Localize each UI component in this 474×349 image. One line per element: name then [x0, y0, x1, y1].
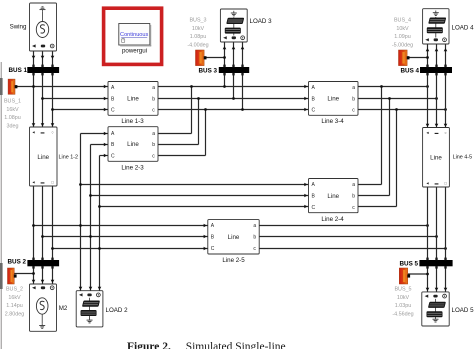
wire Line 1-2 bottom vertical A	[33, 186, 35, 260]
svg-text:Line 1-3: Line 1-3	[121, 118, 144, 125]
svg-text:BUS_4: BUS_4	[394, 18, 411, 24]
svg-text:Line: Line	[127, 141, 139, 148]
wire Line 2-3 input B from BUS2 net	[91, 143, 109, 147]
label Line 1-2	[59, 155, 78, 161]
wire BUS2 phase A horizontal to Line 2-5	[34, 224, 208, 228]
text BUS_4 readings	[392, 18, 413, 49]
wire LOAD4 stub A	[426, 44, 430, 67]
wire BUS3 drop B	[233, 73, 235, 99]
svg-text:◄: ◄	[426, 131, 430, 135]
svg-text:LOAD 3: LOAD 3	[250, 18, 273, 25]
svg-text:1.08pu: 1.08pu	[4, 115, 21, 121]
svg-text:◄: ◄	[426, 182, 430, 186]
junction Line 2-4 riser b	[388, 97, 391, 100]
line block Line 1-3	[108, 82, 158, 116]
junction Line 2-4 branch B	[89, 194, 92, 197]
wire BUS1 phase B horizontal to Line 1-3 input B	[43, 98, 109, 100]
wire Line 2-5 output b to BUS5	[259, 236, 436, 238]
svg-text:a: a	[352, 85, 355, 91]
label powergui	[122, 48, 147, 55]
svg-text:BUS 1: BUS 1	[9, 67, 28, 74]
label BUS 3	[199, 68, 218, 75]
wire BUS2 to machine2 stub A	[32, 266, 36, 284]
label Line 3-4	[321, 118, 344, 125]
junction BUS5 riser b	[435, 235, 438, 238]
junction BUS2 A	[32, 224, 35, 227]
svg-text:C: C	[211, 246, 215, 252]
svg-text:○: ○	[51, 130, 53, 134]
wire BUS_5 display tap	[408, 273, 428, 275]
wire BUS1 phase A horizontal to Line 1-3 input A	[15, 86, 108, 88]
wire Line 2-3 output c riser	[158, 110, 206, 156]
wire Line 2-3 input A from BUS2 net	[81, 132, 109, 136]
junction riser c on phase C	[204, 108, 207, 111]
svg-text:a: a	[152, 131, 155, 137]
svg-text:Line: Line	[430, 155, 442, 162]
wire BUS2 net vertical x100 (to LOAD 2)	[99, 156, 101, 291]
svg-text:C: C	[111, 107, 115, 113]
red highlight box	[104, 8, 162, 64]
junction Line 2-4 branch A	[79, 183, 82, 186]
wire Line 4-5 to BUS5 vertical A	[427, 187, 429, 260]
label LOAD 3	[250, 18, 273, 25]
arrow Line 1-2 input B	[41, 123, 45, 126]
line block Line 2-3	[108, 127, 158, 162]
junction riser b on phase B	[197, 97, 200, 100]
text BUS_2 readings	[5, 287, 25, 318]
svg-text:1.08pu: 1.08pu	[190, 34, 207, 40]
junction BUS1 B	[41, 97, 44, 100]
svg-text:BUS 2: BUS 2	[8, 259, 27, 266]
svg-text:1.03pu: 1.03pu	[395, 303, 412, 309]
junction BUS_2 tap	[32, 272, 35, 275]
wire machine1 stub C	[51, 51, 55, 67]
load block LOAD 3	[220, 9, 247, 42]
wire BUS2 phase C horizontal to Line 2-5	[53, 247, 208, 251]
wire BUS2 to machine2 stub C	[51, 266, 55, 284]
wire phase C Line 1-3 out to Line 3-4 in	[158, 108, 309, 112]
svg-text:○: ○	[444, 131, 446, 135]
junction Line 2-4 riser c	[395, 108, 398, 111]
wire BUS4 to Line 4-5 vertical A	[426, 73, 430, 128]
load block LOAD 4	[423, 9, 449, 44]
caption	[0, 342, 474, 349]
svg-text:Line 2-3: Line 2-3	[121, 165, 144, 172]
svg-text:BUS 3: BUS 3	[199, 68, 218, 75]
wire BUS4 to Line 4-5 vertical C	[444, 73, 448, 128]
wire Line 2-3 input C from BUS2 net	[100, 154, 109, 158]
svg-text:Continuous: Continuous	[120, 32, 149, 38]
arrow LOAD2 input C	[98, 287, 102, 290]
wire BUS1 vertical phase B (bar to Line 1-2)	[42, 73, 44, 128]
bus bar BUS 3	[219, 65, 249, 76]
measurement block BUS_3	[196, 50, 207, 66]
label Swing	[10, 24, 27, 31]
svg-text:1.09pu: 1.09pu	[394, 34, 411, 40]
wire BUS3 drop A	[224, 73, 226, 87]
bus bar BUS 1	[27, 65, 59, 76]
svg-text:2.80deg: 2.80deg	[5, 311, 25, 317]
junction BUS3 drop A	[223, 85, 226, 88]
junction BUS_4 tap	[426, 56, 429, 59]
wire Line 2-4 input B horizontal	[91, 194, 309, 198]
svg-text:Line: Line	[127, 96, 139, 103]
label Line 1-3	[121, 118, 144, 125]
arrow Line 1-3 input A	[104, 85, 107, 89]
junction BUS1 C	[51, 108, 54, 111]
svg-text:b: b	[152, 96, 155, 102]
label Line 4-5	[453, 155, 472, 161]
label LOAD 5	[452, 307, 474, 314]
svg-text:C: C	[312, 205, 316, 211]
svg-text:M2: M2	[59, 305, 68, 312]
svg-text:10kV: 10kV	[397, 295, 410, 301]
junction LOAD2 net C	[98, 247, 101, 250]
junction riser a on phase A	[190, 85, 193, 88]
wire BUS2 net vertical x90 (to LOAD 2)	[90, 145, 92, 291]
load block LOAD 2	[76, 291, 103, 327]
wire phase C Line 3-4 out to BUS4	[358, 109, 446, 111]
svg-text:Line 2-4: Line 2-4	[321, 216, 344, 223]
svg-text:LOAD 2: LOAD 2	[106, 307, 129, 314]
bus bar BUS 4	[420, 65, 452, 76]
wire machine1 stub B	[41, 51, 45, 67]
wire Line 4-5 to BUS5 vertical C	[445, 187, 447, 260]
wire BUS_4 display tap	[407, 57, 428, 59]
svg-text:Line: Line	[327, 96, 339, 103]
line block Line 3-4	[309, 82, 359, 116]
wire LOAD3 stub C	[241, 42, 245, 67]
wire Line 1-2 bottom vertical C	[52, 186, 54, 260]
wire BUS2 phase B horizontal to Line 2-5	[43, 235, 208, 239]
svg-text:1.14pu: 1.14pu	[6, 303, 23, 309]
junction Line 2-4 branch C	[98, 205, 101, 208]
svg-text:BUS_1: BUS_1	[4, 99, 21, 105]
wire BUS5 to LOAD5 stub C	[444, 266, 448, 292]
svg-text:-4.00deg: -4.00deg	[187, 42, 208, 48]
svg-text:b: b	[253, 235, 256, 241]
svg-text:▬: ▬	[41, 130, 45, 134]
label BUS 4	[401, 68, 420, 75]
synchronous machine M2	[30, 284, 57, 331]
text BUS_5 readings	[392, 287, 413, 318]
svg-text:Line 3-4: Line 3-4	[321, 118, 344, 125]
junction BUS_5 tap	[426, 273, 429, 276]
label LOAD 4	[452, 25, 474, 32]
wire Line 1-2 bottom vertical B	[42, 186, 44, 260]
page edge mark upper	[0, 78, 3, 95]
wire BUS1 vertical phase A (bar to Line 1-2)	[33, 73, 35, 128]
line block Line 2-4	[309, 179, 359, 213]
svg-text:10kV: 10kV	[192, 26, 205, 32]
svg-text:10kV: 10kV	[396, 26, 409, 32]
page edge line	[0, 62, 2, 349]
junction BUS3 drop B	[232, 97, 235, 100]
label Line 2-5	[222, 257, 245, 264]
svg-text:◄: ◄	[32, 130, 36, 134]
junction BUS_3 tap	[223, 56, 226, 59]
synchronous machine M1 (swing)	[30, 3, 57, 51]
svg-text:3deg: 3deg	[7, 123, 19, 129]
wire BUS2 to machine2 stub B	[41, 266, 45, 284]
measurement block BUS_4	[399, 50, 410, 66]
svg-text:16kV: 16kV	[6, 107, 19, 113]
wire Line 2-3 output a riser	[158, 87, 192, 134]
load block LOAD 5	[422, 292, 449, 326]
svg-text:Line: Line	[327, 193, 339, 200]
wire phase A Line 3-4 out to BUS4	[358, 86, 428, 88]
junction BUS5 riser a	[426, 224, 429, 227]
svg-text:b: b	[152, 142, 155, 148]
wire Line 2-5 output c to BUS5	[259, 248, 445, 250]
label LOAD 2	[106, 307, 129, 314]
junction LOAD2 net A	[79, 224, 82, 227]
arrow Line 1-3 input B	[104, 97, 107, 101]
svg-text:a: a	[352, 182, 355, 188]
svg-text:a: a	[152, 85, 155, 91]
junction BUS5 riser c	[444, 247, 447, 250]
label BUS 1	[9, 67, 28, 74]
svg-text:BUS_2: BUS_2	[6, 287, 23, 293]
junction BUS4 B	[435, 97, 438, 100]
wire Line 2-3 output b riser	[158, 99, 199, 145]
junction BUS3 drop C	[241, 108, 244, 111]
wire phase A Line 1-3 out to Line 3-4 in	[158, 85, 309, 89]
wire Line 4-5 to BUS5 vertical B	[436, 187, 438, 260]
svg-text:LOAD 5: LOAD 5	[452, 307, 474, 314]
svg-text:BUS_3: BUS_3	[189, 18, 206, 24]
wire machine1 stub A	[32, 51, 36, 67]
line block Line 2-5	[208, 220, 259, 254]
page edge mark lower	[0, 263, 3, 289]
svg-text:b: b	[352, 96, 355, 102]
text BUS_3 readings	[187, 18, 208, 49]
junction BUS2 B	[41, 235, 44, 238]
wire phase B Line 1-3 out to Line 3-4 in	[158, 97, 309, 101]
svg-text:powergui: powergui	[122, 48, 147, 55]
measurement block BUS_1	[8, 79, 17, 94]
label Line 2-4	[321, 216, 344, 223]
arrow Line 1-2 input A	[32, 123, 36, 126]
svg-text:Line: Line	[228, 234, 240, 241]
svg-text:BUS 5: BUS 5	[400, 261, 419, 268]
svg-text:b: b	[352, 194, 355, 200]
wire Line 2-4 output b riser	[358, 99, 390, 196]
bus bar BUS 2	[27, 258, 59, 269]
junction BUS4 A	[426, 85, 429, 88]
wire LOAD4 stub B	[435, 44, 439, 67]
arrow LOAD2 input B	[89, 287, 93, 290]
svg-text:LOAD 4: LOAD 4	[452, 25, 474, 32]
wire BUS3 drop C	[242, 73, 244, 110]
wire BUS1 phase C horizontal to Line 1-3 input C	[53, 109, 109, 111]
svg-text:BUS_5: BUS_5	[394, 287, 411, 293]
svg-text:Swing: Swing	[10, 24, 27, 31]
svg-text:Line 4-5: Line 4-5	[453, 155, 472, 161]
svg-text:◄: ◄	[32, 181, 36, 185]
powergui block	[119, 24, 151, 47]
text BUS_1 readings	[4, 99, 21, 130]
arrow LOAD2 input A	[79, 287, 83, 290]
label BUS 2	[8, 259, 27, 266]
svg-text:-5.00deg: -5.00deg	[392, 42, 413, 48]
wire LOAD4 stub C	[444, 44, 448, 67]
svg-text:-4.56deg: -4.56deg	[392, 311, 413, 317]
svg-text:▬: ▬	[435, 182, 439, 186]
wire Line 2-4 input A horizontal	[81, 183, 309, 187]
svg-text:a: a	[253, 223, 256, 229]
wire BUS5 to LOAD5 stub A	[426, 266, 430, 292]
arrow Line 1-2 input C	[51, 123, 55, 126]
wire Line 2-4 output c riser	[358, 110, 397, 207]
svg-text:C: C	[111, 154, 115, 160]
svg-text:Line: Line	[37, 154, 49, 161]
bus bar BUS 5	[419, 258, 452, 269]
wire BUS4 to Line 4-5 vertical B	[435, 73, 439, 128]
svg-text:Line 2-5: Line 2-5	[222, 257, 245, 264]
junction Line 2-4 riser a	[380, 85, 383, 88]
label Line 2-3	[121, 165, 144, 172]
wire BUS_2 display tap	[14, 273, 34, 275]
label M2	[59, 305, 68, 312]
junction LOAD2 net B	[89, 235, 92, 238]
wire LOAD3 stub A	[223, 42, 227, 67]
wire phase B Line 3-4 out to BUS4	[358, 98, 437, 100]
label BUS 5	[400, 261, 419, 268]
svg-text:C: C	[312, 107, 316, 113]
svg-text:Line 1-2: Line 1-2	[59, 155, 78, 161]
wire BUS1 vertical phase C (bar to Line 1-2)	[52, 73, 54, 128]
svg-text:BUS 4: BUS 4	[401, 68, 420, 75]
junction BUS1 A	[32, 85, 35, 88]
svg-text:▬: ▬	[435, 131, 439, 135]
arrow Line 1-3 input C	[104, 108, 107, 112]
wire Line 2-5 output a to BUS5	[259, 225, 427, 227]
svg-text:▬: ▬	[41, 181, 45, 185]
wire Line 2-4 input C horizontal	[100, 205, 309, 209]
svg-text:16kV: 16kV	[8, 295, 21, 301]
wire LOAD3 stub B	[232, 42, 236, 67]
wire Line 2-4 output a riser	[358, 87, 382, 185]
wire BUS_3 display tap	[204, 57, 225, 59]
line block Line 4-5 (vertical)	[423, 128, 450, 188]
line block Line 1-2 (vertical)	[30, 127, 58, 186]
junction BUS2 C	[51, 247, 54, 250]
measurement block BUS_5	[399, 268, 410, 284]
measurement block BUS_2	[8, 268, 17, 284]
wire BUS2 net vertical x80 (to LOAD 2)	[80, 134, 82, 291]
wire BUS5 to LOAD5 stub B	[435, 266, 439, 292]
junction BUS4 C	[444, 108, 447, 111]
